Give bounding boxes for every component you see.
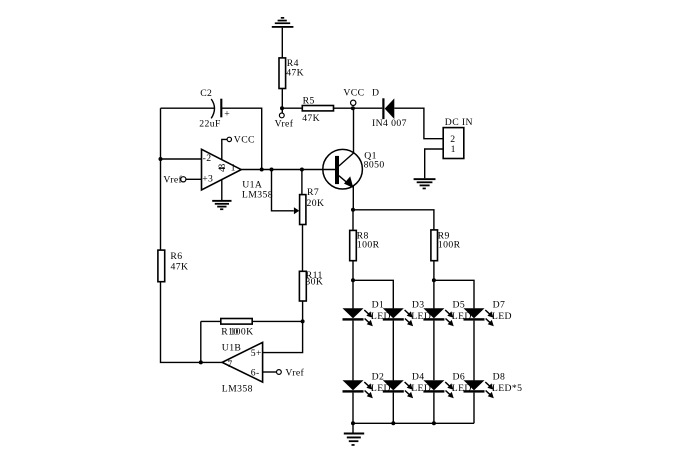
LED D3 — [383, 300, 431, 327]
op-amp U1A — [202, 149, 273, 200]
wire R5 to diode — [334, 107, 383, 109]
wire c2 bottom — [392, 393, 394, 424]
wire R10 branch vertical — [200, 321, 202, 362]
wire c3 top — [433, 280, 435, 308]
node rail/pin2 junction — [159, 157, 163, 161]
wire c4 mid — [473, 321, 475, 381]
svg-text:D1: D1 — [372, 300, 385, 311]
wire C2 top (left rail corner to cap) — [161, 107, 215, 109]
resistor R8 — [350, 230, 380, 260]
node bus c3 — [432, 421, 436, 425]
wire to c4 top — [434, 280, 474, 308]
wire emitter junction to R9 column — [353, 210, 434, 230]
wire c3 bottom — [433, 393, 435, 424]
svg-text:47K: 47K — [302, 113, 320, 124]
svg-text:R7: R7 — [307, 187, 319, 198]
wire bus to ground — [352, 423, 354, 432]
svg-text:D5: D5 — [453, 300, 466, 311]
LED D5 — [423, 300, 471, 327]
left rail (top segment) — [160, 108, 162, 250]
LED D1 — [343, 300, 391, 327]
svg-text:30K: 30K — [305, 276, 323, 287]
ground (under DC IN) — [414, 178, 436, 189]
diode D IN4007 — [372, 87, 407, 129]
svg-text:D6: D6 — [453, 372, 466, 383]
wire Q1 collector to VCC node — [353, 108, 355, 153]
connector DC IN — [443, 117, 473, 158]
svg-text:6-: 6- — [251, 368, 260, 379]
svg-text:R5: R5 — [303, 95, 315, 106]
node R8 bottom junction — [351, 278, 355, 282]
svg-text:1: 1 — [231, 162, 236, 173]
svg-text:D3: D3 — [412, 300, 425, 311]
svg-text:100R: 100R — [357, 240, 380, 251]
wire c1 bottom — [352, 393, 354, 424]
node VCC — [343, 87, 364, 110]
wire c1 top — [352, 280, 354, 308]
node Vref (junction + terminal) — [275, 106, 294, 129]
svg-text:LED: LED — [492, 311, 512, 322]
wire c4 bottom — [473, 393, 475, 424]
svg-text:D8: D8 — [493, 372, 506, 383]
ground (under U1A) — [212, 200, 231, 210]
node output/R7 top — [300, 168, 304, 172]
svg-text:22uF: 22uF — [199, 118, 221, 129]
svg-text:-2: -2 — [203, 153, 212, 164]
wire pin3 — [186, 178, 202, 180]
wire diode to DC IN pin2 — [394, 108, 443, 139]
left rail: resistor R6 — [158, 250, 188, 282]
node VCC (U1A) — [227, 135, 255, 146]
capacitor C2 — [199, 88, 230, 129]
wire U1A VCC stub — [222, 139, 227, 159]
svg-text:20K: 20K — [307, 198, 325, 209]
wire Vref node to R5 — [282, 107, 302, 109]
svg-text:8050: 8050 — [364, 160, 385, 171]
svg-text:D: D — [372, 87, 379, 98]
wire U1A ground stub — [221, 180, 223, 201]
wire U1A output to Q1 base — [241, 169, 335, 171]
resistor R7 (adjustable) — [272, 170, 325, 225]
transistor Q1 — [323, 149, 385, 189]
node emitter junction — [351, 208, 355, 212]
wire R8 bottom to c1/c2 — [352, 261, 354, 281]
svg-text:+: + — [224, 109, 230, 120]
wire R4 to Vref node — [281, 89, 283, 113]
node U1B output/R10 junction — [199, 360, 203, 364]
node Vref terminal (U1A pin3) — [163, 174, 186, 185]
wire to c2 top — [353, 280, 393, 308]
node R9 bottom junction — [432, 278, 436, 282]
wire DC IN pin1 to ground — [425, 149, 444, 178]
svg-text:DC IN: DC IN — [445, 117, 473, 128]
svg-text:VCC: VCC — [234, 135, 255, 146]
wire emitter junction to R8 — [352, 210, 354, 231]
wire ground to R4 — [281, 28, 283, 58]
svg-text:D4: D4 — [412, 372, 425, 383]
wire R11 to R10 junction and pin5 — [263, 301, 303, 353]
node bus c2 — [391, 421, 395, 425]
svg-text:LM358: LM358 — [242, 190, 273, 201]
node bus c1 — [351, 421, 355, 425]
svg-text:Vref: Vref — [275, 118, 294, 129]
wire R9 bottom to c3 — [433, 261, 435, 281]
svg-text:IN4 007: IN4 007 — [372, 118, 407, 129]
resistor R5 — [302, 95, 333, 124]
wire c3 mid — [433, 321, 435, 381]
svg-text:47K: 47K — [171, 261, 189, 272]
svg-text:LM358: LM358 — [222, 384, 253, 395]
op-amp U1B — [222, 342, 263, 394]
svg-text:+3: +3 — [202, 173, 213, 184]
left rail (bottom segment) — [161, 282, 223, 363]
svg-text:7: 7 — [227, 359, 232, 370]
svg-text:R6: R6 — [170, 251, 182, 262]
resistor R11 — [299, 270, 323, 301]
svg-text:VCC: VCC — [343, 87, 364, 98]
LED D6 — [423, 372, 471, 399]
svg-text:100R: 100R — [438, 240, 461, 251]
wire C2 to feedback corner, down to output — [221, 108, 261, 169]
svg-text:1: 1 — [451, 144, 456, 155]
wire R7 top — [301, 170, 303, 195]
node Vref terminal (U1B pin6) — [277, 368, 305, 379]
svg-text:Vref: Vref — [163, 174, 182, 185]
svg-text:5+: 5+ — [251, 348, 262, 359]
wire bottom bus — [353, 422, 474, 424]
wire U1B pin6 to Vref — [263, 371, 277, 373]
svg-text:D2: D2 — [372, 372, 385, 383]
svg-text:D7: D7 — [493, 300, 506, 311]
wire R7 to R11 — [302, 225, 304, 272]
wire c1 mid — [352, 321, 354, 381]
LED D4 — [383, 372, 431, 399]
LED D2 — [343, 372, 391, 399]
svg-text:47K: 47K — [286, 68, 304, 79]
svg-text:LED*5: LED*5 — [492, 383, 523, 394]
resistor R4 — [279, 58, 304, 89]
svg-text:4: 4 — [217, 167, 228, 172]
svg-text:U1B: U1B — [222, 342, 242, 353]
svg-text:Vref: Vref — [285, 368, 304, 379]
ground (top, inverted) — [272, 17, 294, 28]
wire c2 mid — [392, 321, 394, 381]
node output/C2 feedback — [260, 168, 264, 172]
node output/R7 wiper — [270, 168, 274, 172]
wire pin2 — [161, 158, 202, 160]
node R10/R11/pin5 junction — [301, 319, 305, 323]
svg-text:100K: 100K — [230, 326, 253, 337]
resistor R9 — [431, 230, 461, 261]
LED D8 — [464, 372, 523, 399]
wire Q1 emitter down — [352, 186, 354, 210]
resistor R10 — [201, 319, 303, 338]
LED D7 — [464, 300, 512, 327]
svg-text:C2: C2 — [200, 88, 212, 99]
ground (bottom) — [344, 433, 364, 446]
